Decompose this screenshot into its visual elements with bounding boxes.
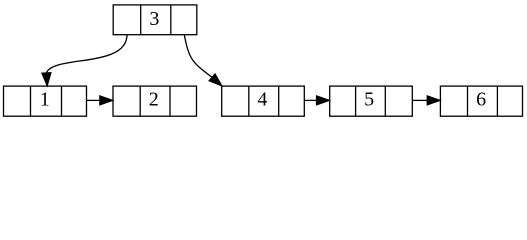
svg-text:2: 2 <box>149 89 159 111</box>
svg-text:6: 6 <box>476 89 486 111</box>
record node n5 (key 5) <box>330 86 413 116</box>
arrowhead of edge n4 -> n5 <box>316 96 329 105</box>
record node n1 (key 1) <box>4 86 87 116</box>
arrowhead of edge n5 -> n6 <box>427 96 440 105</box>
arrowhead of edge n1 -> n2 <box>100 96 113 105</box>
edge n4 -> n5 (horizontal link) <box>305 99 317 101</box>
record node n2 (key 2) <box>113 86 197 116</box>
arrowhead of edge n3:l -> n1 <box>42 73 51 87</box>
svg-text:4: 4 <box>257 89 267 111</box>
arrowhead of edge n3:r -> n4 <box>209 74 222 86</box>
edge n5 -> n6 (horizontal link) <box>413 99 428 101</box>
record node n6 (key 6) <box>440 86 522 116</box>
svg-text:5: 5 <box>364 89 374 111</box>
edge n3:r -> n4 (curved spline) <box>184 35 212 78</box>
record node n3 (top, key 3) <box>113 5 197 35</box>
svg-text:1: 1 <box>40 89 50 111</box>
record node n4 (key 4) <box>222 86 305 116</box>
edge n1 -> n2 (horizontal link) <box>87 99 100 101</box>
svg-text:3: 3 <box>149 8 159 30</box>
edge n3:l -> n1 (curved spline) <box>46 35 127 73</box>
